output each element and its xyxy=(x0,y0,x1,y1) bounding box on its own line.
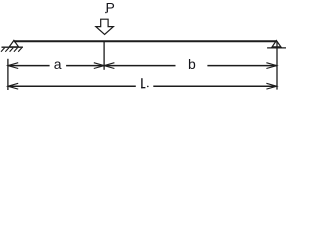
svg-text:P: P xyxy=(106,0,115,15)
svg-text:b: b xyxy=(188,56,196,72)
svg-text:a: a xyxy=(54,56,62,72)
